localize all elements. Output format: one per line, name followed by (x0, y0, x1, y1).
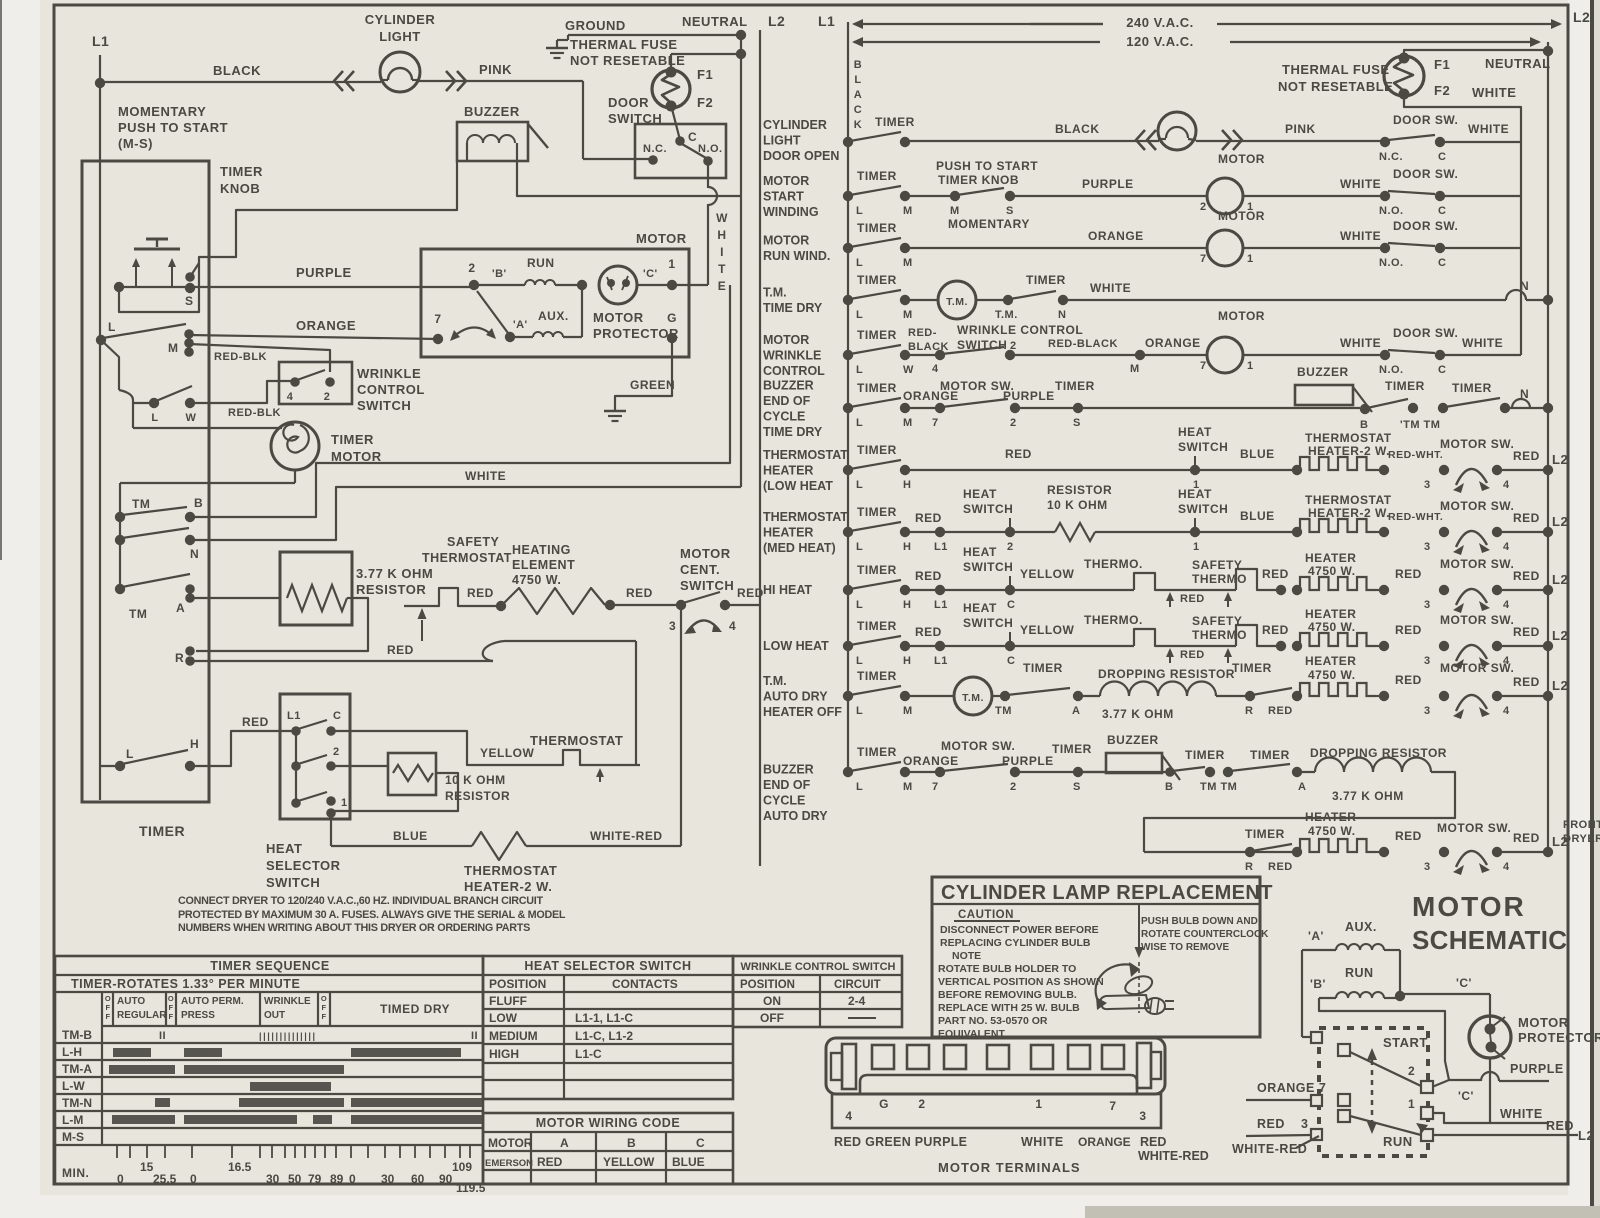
svg-text:MOTOR: MOTOR (763, 174, 809, 188)
svg-text:TIMER: TIMER (1245, 827, 1285, 841)
svg-text:L1: L1 (934, 541, 948, 553)
svg-text:2: 2 (324, 391, 331, 403)
svg-text:TIMER: TIMER (1055, 379, 1095, 393)
svg-text:MOTOR: MOTOR (763, 234, 809, 248)
svg-text:DROPPING RESISTOR: DROPPING RESISTOR (1098, 667, 1235, 681)
thermo bump (1134, 573, 1236, 590)
svg-text:4: 4 (1503, 479, 1510, 491)
svg-text:7: 7 (1200, 253, 1207, 265)
svg-text:WHITE: WHITE (465, 469, 506, 483)
wire resistor return to R (196, 598, 368, 651)
svg-text:PRESS: PRESS (181, 1010, 215, 1021)
svg-text:THERMOSTAT: THERMOSTAT (1305, 431, 1392, 445)
motor wiring code table (483, 1113, 733, 1184)
svg-text:H: H (903, 655, 911, 667)
svg-text:B: B (1165, 781, 1173, 793)
svg-text:F: F (168, 1003, 173, 1012)
svg-text:PURPLE: PURPLE (1002, 754, 1054, 768)
svg-text:TIMER: TIMER (139, 823, 185, 839)
svg-text:TIMER: TIMER (1185, 748, 1225, 762)
svg-text:RED: RED (626, 586, 653, 600)
svg-text:1: 1 (1408, 1097, 1415, 1111)
svg-text:HEAT: HEAT (963, 487, 997, 501)
svg-text:RED: RED (1546, 1119, 1574, 1133)
svg-text:SWITCH: SWITCH (963, 502, 1013, 516)
svg-text:RUN: RUN (1345, 966, 1374, 980)
svg-text:L1: L1 (287, 710, 301, 722)
svg-text:(M-S): (M-S) (118, 136, 153, 151)
svg-text:RED: RED (1268, 861, 1293, 873)
svg-text:'C': 'C' (1458, 1089, 1474, 1103)
svg-text:TIMER: TIMER (1385, 379, 1425, 393)
wire BLACK top (100, 81, 381, 83)
wrinkle control switch box (279, 362, 352, 404)
white bus right (1404, 96, 1521, 355)
svg-text:RUN: RUN (1383, 1134, 1413, 1149)
svg-text:SCHEMATIC: SCHEMATIC (1412, 925, 1567, 955)
svg-text:T: T (718, 262, 726, 276)
svg-text:RED: RED (1262, 623, 1289, 637)
svg-text:3: 3 (1139, 1109, 1146, 1123)
svg-text:C: C (696, 1136, 705, 1150)
svg-text:'A': 'A' (513, 319, 528, 331)
svg-text:15: 15 (140, 1160, 154, 1174)
wire heat sel C yellow to thermostat (331, 731, 545, 765)
svg-text:4: 4 (845, 1109, 852, 1123)
svg-text:TM: TM (132, 497, 150, 511)
svg-text:2: 2 (468, 261, 475, 275)
timer contacts TM-A (119, 540, 121, 589)
svg-text:L2: L2 (1573, 9, 1590, 25)
svg-text:BUZZER: BUZZER (464, 104, 520, 119)
motor terminals connector (826, 1038, 1165, 1094)
svg-text:3: 3 (669, 619, 676, 633)
svg-text:TIMER: TIMER (857, 169, 897, 183)
svg-text:M: M (903, 257, 913, 269)
svg-text:RED: RED (915, 511, 942, 525)
motor terminal 7 and start blade (433, 334, 443, 344)
svg-text:B: B (854, 59, 862, 71)
svg-text:PUSH BULB DOWN AND: PUSH BULB DOWN AND (1141, 916, 1258, 927)
svg-text:3: 3 (1424, 541, 1431, 553)
svg-text:RED: RED (1180, 593, 1205, 605)
svg-text:POSITION: POSITION (740, 979, 795, 991)
svg-text:4: 4 (287, 391, 294, 403)
svg-text:F2: F2 (1434, 83, 1450, 98)
svg-text:MOTOR SW.: MOTOR SW. (1440, 437, 1514, 451)
svg-text:RED: RED (1140, 1135, 1166, 1149)
svg-text:3: 3 (1424, 705, 1431, 717)
svg-text:POSITION: POSITION (489, 977, 546, 991)
svg-text:L1-C, L1-2: L1-C, L1-2 (575, 1029, 633, 1043)
svg-text:N: N (190, 547, 199, 561)
svg-text:3.77 K OHM: 3.77 K OHM (1102, 707, 1174, 721)
svg-text:RED: RED (387, 643, 414, 657)
row4 TM circle (938, 281, 976, 319)
wire PURPLE to motor (190, 286, 474, 288)
chevrons on lamp wire (334, 71, 343, 91)
svg-text:60: 60 (411, 1172, 425, 1186)
svg-text:MOTOR: MOTOR (488, 1136, 533, 1150)
svg-text:S: S (1073, 417, 1081, 429)
svg-text:N.O.: N.O. (1379, 205, 1404, 217)
svg-text:THERMOSTAT: THERMOSTAT (422, 551, 512, 565)
svg-text:F: F (105, 1003, 110, 1012)
wire PINK (419, 80, 583, 82)
svg-text:TIME DRY: TIME DRY (763, 301, 823, 315)
svg-text:GROUND: GROUND (565, 18, 626, 33)
svg-text:MOTOR: MOTOR (763, 333, 809, 347)
switch pins (1311, 1032, 1322, 1043)
svg-text:RESISTOR: RESISTOR (356, 582, 426, 597)
svg-text:TIMER: TIMER (1452, 381, 1492, 395)
start run dashed arrow (1371, 1060, 1374, 1122)
svg-text:4: 4 (1503, 541, 1510, 553)
svg-text:M: M (903, 205, 913, 217)
svg-text:FRONT: FRONT (1563, 819, 1600, 831)
wire B up-over to white run (190, 285, 730, 517)
row12 wire to row13 (1144, 772, 1455, 852)
svg-text:A: A (176, 601, 185, 615)
svg-text:ORANGE: ORANGE (1078, 1135, 1131, 1149)
svg-text:4: 4 (1503, 599, 1510, 611)
svg-text:CENT.: CENT. (680, 562, 720, 577)
svg-text:L1-C: L1-C (575, 1047, 602, 1061)
start blade (1350, 1052, 1421, 1086)
svg-text:SWITCH: SWITCH (680, 578, 734, 593)
svg-text:DOOR SW.: DOOR SW. (1393, 219, 1458, 233)
svg-text:TIMER: TIMER (875, 115, 915, 129)
svg-text:30: 30 (266, 1172, 280, 1186)
svg-text:A: A (854, 89, 862, 101)
svg-text:4750 W.: 4750 W. (512, 573, 561, 587)
svg-text:HEAT: HEAT (963, 601, 997, 615)
svg-text:LIGHT: LIGHT (379, 29, 421, 44)
wire red-blk to wrinkle switch (189, 344, 330, 372)
svg-text:N.O.: N.O. (1379, 257, 1404, 269)
svg-text:L: L (151, 412, 158, 424)
svg-text:120 V.A.C.: 120 V.A.C. (1126, 34, 1193, 49)
svg-text:L2: L2 (1552, 514, 1568, 529)
svg-text:7: 7 (434, 312, 441, 326)
svg-text:2: 2 (918, 1097, 925, 1111)
svg-text:SWITCH: SWITCH (963, 616, 1013, 630)
svg-text:TIMER: TIMER (857, 221, 897, 235)
svg-text:L: L (856, 257, 863, 269)
svg-text:RED: RED (242, 715, 269, 729)
svg-text:TIMER: TIMER (1026, 273, 1066, 287)
svg-text:R: R (1245, 861, 1253, 873)
wire heat sel 2 to 10k resistor (331, 765, 388, 767)
svg-text:PURPLE: PURPLE (296, 265, 352, 280)
timer switch L-M (96, 335, 106, 345)
svg-text:L1: L1 (818, 13, 835, 29)
svg-text:START: START (1383, 1035, 1428, 1050)
svg-text:RED: RED (1513, 675, 1540, 689)
svg-text:DOOR: DOOR (608, 95, 649, 110)
motor terminal 1 (667, 280, 677, 290)
svg-text:BUZZER: BUZZER (763, 379, 814, 393)
svg-text:B: B (1360, 419, 1368, 431)
svg-text:WRINKLE: WRINKLE (264, 996, 311, 1007)
svg-text:TM-B: TM-B (62, 1028, 92, 1042)
svg-text:ORANGE 7: ORANGE 7 (1257, 1081, 1326, 1095)
svg-text:L: L (126, 747, 134, 761)
svg-text:MOTOR: MOTOR (1218, 309, 1265, 323)
wire green to ground (615, 338, 672, 403)
svg-text:MOTOR: MOTOR (331, 449, 382, 464)
wire cent sw 4 to L2 rail (725, 604, 760, 606)
svg-text:MOTOR SW.: MOTOR SW. (941, 739, 1015, 753)
svg-text:DOOR OPEN: DOOR OPEN (763, 149, 839, 163)
thermal fuse F1 F2 (671, 53, 741, 55)
svg-text:A: A (1072, 705, 1080, 717)
svg-text:W: W (903, 364, 914, 376)
svg-text:2-4: 2-4 (848, 994, 866, 1008)
10 K OHM resistor box (388, 753, 436, 795)
svg-text:H: H (903, 479, 911, 491)
svg-text:10 K OHM: 10 K OHM (445, 773, 506, 787)
svg-text:PURPLE: PURPLE (1082, 177, 1134, 191)
timer motor (271, 422, 319, 470)
120 VAC line (854, 41, 1100, 43)
svg-text:K: K (854, 119, 862, 131)
svg-text:PINK: PINK (1285, 122, 1316, 136)
svg-text:RED-BLACK: RED-BLACK (1048, 338, 1118, 350)
svg-text:ORANGE: ORANGE (1088, 229, 1144, 243)
wire N to neutral (190, 487, 741, 540)
svg-text:ROTATE BULB HOLDER TO: ROTATE BULB HOLDER TO (938, 963, 1076, 975)
svg-text:T.M.: T.M. (962, 692, 984, 704)
svg-text:L1: L1 (92, 33, 109, 49)
svg-text:4: 4 (1503, 861, 1510, 873)
svg-text:0: 0 (349, 1172, 356, 1186)
svg-text:YELLOW: YELLOW (480, 746, 535, 760)
wire blue - thermostat heater 2w - white-red (331, 845, 472, 847)
svg-text:HEATER: HEATER (1305, 551, 1356, 565)
timer sequence table (55, 956, 483, 1184)
wire red H to heat selector (190, 731, 296, 766)
svg-text:WHITE: WHITE (1340, 336, 1381, 350)
svg-text:C: C (1438, 364, 1446, 376)
svg-text:F: F (321, 1003, 326, 1012)
wire buzzer-right to neutral (517, 161, 741, 196)
svg-text:RED: RED (1513, 449, 1540, 463)
svg-text:TIMER: TIMER (857, 619, 897, 633)
svg-text:109: 109 (452, 1160, 472, 1174)
svg-text:BLUE: BLUE (672, 1155, 705, 1169)
svg-text:3: 3 (1424, 861, 1431, 873)
svg-text:MOTOR SW.: MOTOR SW. (1440, 613, 1514, 627)
svg-text:WHITE: WHITE (1468, 122, 1509, 136)
svg-text:2: 2 (1010, 340, 1017, 352)
svg-text:1: 1 (1247, 360, 1254, 372)
svg-text:M: M (168, 341, 179, 355)
timer contacts TM-N (119, 517, 121, 540)
svg-text:CAUTION: CAUTION (958, 909, 1014, 921)
svg-text:RED: RED (1513, 625, 1540, 639)
svg-text:MOTOR: MOTOR (593, 310, 644, 325)
svg-text:WISE TO REMOVE: WISE TO REMOVE (1141, 942, 1229, 953)
svg-text:HEAT: HEAT (1178, 487, 1212, 501)
svg-text:GREEN: GREEN (630, 378, 675, 392)
svg-text:THERMOSTAT: THERMOSTAT (530, 733, 623, 748)
svg-text:TIMER: TIMER (857, 381, 897, 395)
wire A to 3.77k resistor (190, 597, 280, 599)
svg-text:TM-N: TM-N (62, 1096, 92, 1110)
svg-text:N.O.: N.O. (698, 143, 723, 155)
svg-text:L: L (856, 479, 863, 491)
svg-text:MOTOR: MOTOR (1518, 1015, 1569, 1030)
svg-text:R: R (1245, 705, 1253, 717)
svg-text:(MED HEAT): (MED HEAT) (763, 541, 836, 555)
svg-text:WHITE: WHITE (1090, 281, 1131, 295)
svg-text:RED: RED (1395, 623, 1422, 637)
connector lower body (860, 1075, 1137, 1094)
run to L2 wire (1433, 1134, 1578, 1136)
motor aux winding (505, 332, 515, 342)
svg-text:A: A (560, 1136, 569, 1150)
svg-text:WHITE: WHITE (1462, 336, 1503, 350)
timer contacts TM-B (119, 483, 121, 517)
svg-text:L1: L1 (934, 599, 948, 611)
svg-text:MOTOR: MOTOR (680, 546, 731, 561)
motor protector circle (599, 266, 637, 304)
svg-text:O: O (168, 994, 174, 1003)
svg-text:'C': 'C' (643, 268, 658, 280)
svg-text:H: H (903, 541, 911, 553)
svg-text:MOTOR: MOTOR (1218, 152, 1265, 166)
svg-text:'A': 'A' (1308, 929, 1324, 943)
push-to-start plunger (146, 238, 168, 241)
svg-text:T.M.: T.M. (763, 286, 787, 300)
svg-text:3.77 K OHM: 3.77 K OHM (356, 566, 433, 581)
svg-text:MEDIUM: MEDIUM (489, 1029, 538, 1043)
svg-text:WRINKLE: WRINKLE (357, 366, 421, 381)
svg-text:TIMER SEQUENCE: TIMER SEQUENCE (210, 959, 330, 973)
svg-text:LOW HEAT: LOW HEAT (763, 639, 829, 653)
svg-text:CONNECT DRYER TO 120/240 V.A.C: CONNECT DRYER TO 120/240 V.A.C.,60 HZ. I… (178, 895, 543, 907)
svg-text:L: L (856, 781, 863, 793)
svg-text:S: S (1073, 781, 1081, 793)
svg-text:ON: ON (763, 994, 781, 1008)
svg-text:C: C (854, 104, 862, 116)
svg-text:AUTO DRY: AUTO DRY (763, 690, 828, 704)
svg-text:MOTOR TERMINALS: MOTOR TERMINALS (938, 1160, 1081, 1175)
svg-text:WHITE-RED: WHITE-RED (1232, 1142, 1307, 1156)
svg-text:3.77 K OHM: 3.77 K OHM (1332, 789, 1404, 803)
svg-text:L: L (856, 205, 863, 217)
svg-text:I: I (720, 245, 724, 259)
svg-text:L-W: L-W (62, 1079, 85, 1093)
svg-text:TIMER: TIMER (1232, 661, 1272, 675)
svg-text:E: E (718, 279, 727, 293)
svg-text:MOTOR SW.: MOTOR SW. (1437, 821, 1511, 835)
door switch contacts NC NO (648, 155, 658, 165)
svg-text:N: N (1520, 279, 1529, 293)
svg-text:L-M: L-M (62, 1113, 83, 1127)
svg-text:HEAT SELECTOR SWITCH: HEAT SELECTOR SWITCH (524, 959, 691, 973)
svg-text:7: 7 (1109, 1099, 1116, 1113)
svg-text:HEATER: HEATER (1305, 607, 1356, 621)
svg-text:1: 1 (668, 257, 675, 271)
svg-text:THERMO.: THERMO. (1084, 613, 1143, 627)
wire pink to NC (583, 158, 649, 160)
240 VAC line (854, 23, 1160, 25)
svg-text:WRINKLE CONTROL SWITCH: WRINKLE CONTROL SWITCH (740, 961, 895, 973)
svg-text:MOTOR WIRING CODE: MOTOR WIRING CODE (536, 1116, 680, 1130)
svg-text:RED: RED (915, 625, 942, 639)
svg-text:2: 2 (1010, 781, 1017, 793)
svg-text:RED: RED (1268, 705, 1293, 717)
svg-text:TIMED DRY: TIMED DRY (380, 1002, 450, 1016)
svg-text:TIMER: TIMER (857, 443, 897, 457)
svg-text:NEUTRAL: NEUTRAL (682, 14, 748, 29)
svg-text:REPLACE WITH 25 W. BULB: REPLACE WITH 25 W. BULB (938, 1002, 1080, 1014)
svg-text:N.C.: N.C. (643, 143, 667, 155)
svg-text:RED: RED (1395, 829, 1422, 843)
svg-text:HEATER-2 W.: HEATER-2 W. (464, 879, 552, 894)
svg-text:10 K OHM: 10 K OHM (1047, 498, 1108, 512)
svg-text:TIMER: TIMER (331, 432, 374, 447)
svg-text:AUTO PERM.: AUTO PERM. (181, 996, 244, 1007)
svg-text:WRINKLE: WRINKLE (763, 349, 821, 363)
svg-text:HI HEAT: HI HEAT (763, 583, 812, 597)
svg-text:T.M.: T.M. (763, 674, 787, 688)
svg-text:MOMENTARY: MOMENTARY (948, 217, 1030, 231)
svg-text:7: 7 (932, 781, 939, 793)
svg-text:'B': 'B' (492, 268, 507, 280)
svg-text:OFF: OFF (760, 1011, 784, 1025)
svg-text:NOTE: NOTE (952, 950, 981, 962)
svg-text:TM: TM (995, 705, 1012, 717)
svg-text:O: O (105, 994, 111, 1003)
svg-text:2: 2 (1200, 201, 1207, 213)
svg-text:H: H (190, 737, 199, 751)
svg-text:H: H (903, 599, 911, 611)
svg-text:REGULAR: REGULAR (117, 1010, 167, 1021)
svg-text:2: 2 (1007, 541, 1014, 553)
svg-text:CIRCUIT: CIRCUIT (834, 979, 881, 991)
svg-text:II: II (159, 1030, 166, 1042)
svg-text:RED: RED (537, 1155, 563, 1169)
svg-text:HEAT: HEAT (266, 841, 302, 856)
wire L1 bus inside timer (99, 83, 101, 800)
run blade (1350, 1116, 1421, 1135)
svg-text:4750 W.: 4750 W. (1308, 824, 1356, 838)
svg-text:TIME DRY: TIME DRY (763, 425, 823, 439)
svg-text:DISCONNECT POWER BEFORE: DISCONNECT POWER BEFORE (940, 924, 1099, 936)
svg-text:L2: L2 (1578, 1128, 1594, 1143)
svg-text:3: 3 (1424, 655, 1431, 667)
svg-text:2: 2 (333, 746, 340, 758)
row4 hump over white bus (1506, 290, 1526, 300)
svg-text:L: L (856, 309, 863, 321)
svg-text:SWITCH: SWITCH (357, 398, 411, 413)
svg-text:RED: RED (467, 586, 494, 600)
svg-text:L: L (856, 599, 863, 611)
svg-text:MIN.: MIN. (62, 1166, 89, 1180)
timer contacts R (185, 646, 195, 656)
svg-text:RED: RED (1513, 831, 1540, 845)
svg-text:BLUE: BLUE (1240, 447, 1275, 461)
svg-text:7: 7 (1200, 360, 1207, 372)
svg-text:S: S (1006, 205, 1014, 217)
svg-text:HEAT: HEAT (963, 545, 997, 559)
svg-text:1: 1 (1193, 541, 1200, 553)
svg-text:0: 0 (117, 1172, 124, 1186)
svg-text:RED GREEN PURPLE: RED GREEN PURPLE (834, 1135, 967, 1149)
